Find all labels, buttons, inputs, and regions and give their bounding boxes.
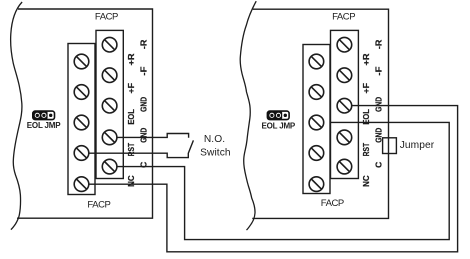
svg-text:Switch: Switch [200,147,231,158]
svg-text:GND: GND [139,97,149,112]
svg-text:EOL: EOL [361,109,371,125]
svg-text:GND: GND [374,128,384,143]
svg-text:-F: -F [139,67,149,76]
svg-text:EOL: EOL [126,109,136,125]
svg-text:GND: GND [374,97,384,112]
svg-text:+R: +R [361,54,371,66]
svg-text:EOL JMP: EOL JMP [262,121,296,130]
svg-text:+R: +R [126,54,136,66]
svg-text:FACP: FACP [87,200,110,211]
svg-text:NC: NC [126,175,136,187]
svg-text:EOL JMP: EOL JMP [27,121,61,130]
svg-text:N.O.: N.O. [204,134,225,145]
svg-text:-R: -R [139,40,149,50]
svg-text:RST: RST [361,142,371,156]
svg-text:GND: GND [139,128,149,143]
svg-text:FACP: FACP [321,198,344,209]
svg-text:+F: +F [126,83,136,94]
svg-text:NC: NC [361,175,371,187]
svg-text:FACP: FACP [95,11,118,22]
svg-text:RST: RST [126,142,136,156]
svg-text:+F: +F [361,83,371,94]
svg-text:Jumper: Jumper [400,140,435,151]
svg-text:-R: -R [374,40,384,50]
svg-text:C: C [374,162,384,168]
svg-text:C: C [139,162,149,168]
svg-text:FACP: FACP [332,11,355,22]
svg-text:-F: -F [374,67,384,76]
